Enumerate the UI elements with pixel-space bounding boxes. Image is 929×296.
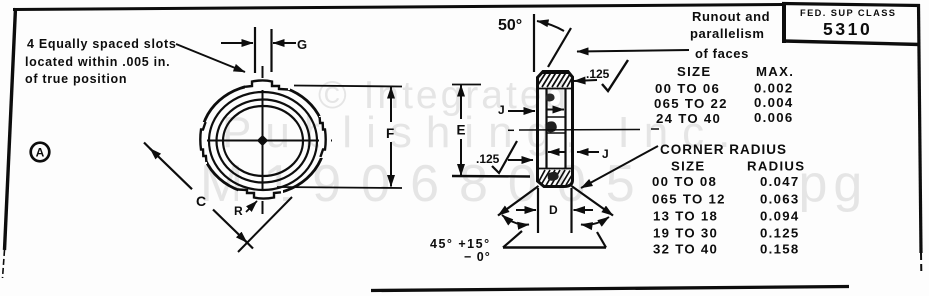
bottom hatch band top line	[538, 168, 573, 170]
svg-text:32 TO 40: 32 TO 40	[653, 242, 718, 257]
svg-text:.125: .125	[476, 152, 500, 166]
bore arrow lower	[548, 151, 565, 153]
chamfer left diagonal	[498, 186, 539, 216]
svg-text:19 TO 30: 19 TO 30	[653, 226, 718, 241]
svg-text:CORNER RADIUS: CORNER RADIUS	[660, 142, 787, 157]
runout leader	[577, 50, 689, 52]
45 deg arc left	[502, 215, 529, 225]
svg-text:45° +15°: 45° +15°	[430, 237, 491, 251]
chamfer right diagonal	[572, 186, 614, 216]
svg-text:5310: 5310	[823, 19, 872, 39]
dimension E extension lines	[452, 84, 481, 86]
corner radius leader	[581, 146, 658, 188]
svg-text:SIZE: SIZE	[677, 64, 712, 79]
page right border	[919, 4, 922, 253]
svg-text:RADIUS: RADIUS	[747, 159, 805, 174]
inner ring 4	[223, 106, 303, 176]
thread relief lines	[547, 116, 566, 118]
note leader arrow	[176, 44, 245, 72]
svg-text:MAX.: MAX.	[756, 64, 794, 79]
bore arrow upper	[547, 109, 564, 111]
svg-text:0.063: 0.063	[760, 192, 800, 207]
svg-text:A: A	[36, 146, 45, 160]
svg-text:00 TO 08: 00 TO 08	[652, 174, 717, 189]
dimension C line	[150, 149, 192, 190]
section centerline	[508, 129, 514, 131]
svg-text:0.047: 0.047	[760, 174, 800, 189]
inner ring 3	[217, 100, 310, 183]
front view centerline vertical	[262, 66, 264, 214]
svg-text:0.125: 0.125	[760, 226, 800, 241]
front view centerline horizontal	[195, 140, 332, 142]
dimension G extension lines	[254, 27, 256, 73]
svg-text:D: D	[549, 203, 558, 217]
svg-text:Runout and: Runout and	[692, 9, 770, 24]
datum symbol A	[31, 143, 50, 162]
scan smudges in section	[546, 121, 557, 132]
dimension E line	[460, 85, 462, 119]
svg-text:50°: 50°	[498, 17, 522, 34]
center mark	[257, 135, 268, 146]
top slot	[245, 78, 290, 90]
svg-text:00 TO 06: 00 TO 06	[655, 81, 720, 96]
page top border	[13, 5, 782, 10]
section top face emphasis	[542, 71, 569, 74]
section view body	[538, 72, 573, 187]
svg-text:065 TO 22: 065 TO 22	[654, 96, 728, 111]
inner ring 2	[209, 92, 317, 190]
svg-text:E: E	[457, 123, 466, 138]
dimension G arrows	[221, 42, 253, 44]
left slot	[195, 122, 207, 164]
45 deg arc right	[581, 217, 609, 225]
page left border	[5, 8, 16, 250]
chamfer baseline	[503, 246, 606, 248]
svg-text:SIZE: SIZE	[671, 159, 706, 174]
svg-text:R: R	[234, 204, 243, 218]
title block FED SUP CLASS box	[782, 2, 786, 43]
svg-text:.125: .125	[586, 67, 610, 81]
top band hatching	[538, 73, 572, 88]
bottom slot	[238, 189, 283, 201]
svg-text:0.006: 0.006	[754, 110, 794, 125]
svg-text:of true position: of true position	[25, 72, 127, 86]
svg-text:− 0°: − 0°	[464, 250, 491, 264]
svg-text:G: G	[297, 37, 307, 52]
dimension D arrows	[516, 209, 536, 211]
tangent line for C	[238, 197, 292, 252]
svg-text:065 TO 12: 065 TO 12	[652, 192, 726, 207]
svg-text:F: F	[386, 126, 394, 141]
svg-text:0.158: 0.158	[760, 242, 800, 257]
runout table	[654, 64, 794, 126]
svg-text:4 Equally spaced slots: 4 Equally spaced slots	[27, 37, 176, 51]
svg-text:13 TO 18: 13 TO 18	[653, 209, 718, 224]
chamfer zone verticals	[537, 188, 539, 233]
svg-text:0.002: 0.002	[754, 81, 794, 96]
svg-text:FED. SUP CLASS: FED. SUP CLASS	[800, 8, 896, 18]
svg-text:0.004: 0.004	[754, 95, 794, 110]
bore wall left	[545, 89, 547, 169]
svg-text:24 TO 40: 24 TO 40	[656, 111, 721, 126]
dimension F line	[390, 87, 392, 122]
note text: 4 equally spaced slots	[25, 37, 176, 86]
svg-text:J: J	[498, 103, 505, 117]
svg-text:parallelism: parallelism	[690, 26, 765, 41]
corner radius table	[652, 142, 805, 257]
section outline	[538, 72, 573, 187]
label J right with arrow	[577, 151, 599, 153]
bottom band hatching	[538, 170, 572, 186]
runout note text	[690, 9, 770, 61]
svg-text:C: C	[196, 193, 206, 209]
baseline riser right	[597, 232, 606, 248]
right slot	[319, 116, 331, 158]
svg-text:0.094: 0.094	[760, 209, 800, 224]
svg-text:located within .005 in.: located within .005 in.	[25, 55, 170, 69]
baseline riser left	[503, 231, 522, 248]
svg-text:J: J	[602, 147, 609, 161]
top hatch band bottom line	[538, 88, 573, 90]
bore wall right	[564, 89, 566, 169]
nut outer profile with slots	[195, 78, 331, 201]
svg-text:of faces: of faces	[695, 46, 749, 61]
dimension F extension lines	[294, 86, 402, 87]
page bottom border	[371, 287, 849, 291]
